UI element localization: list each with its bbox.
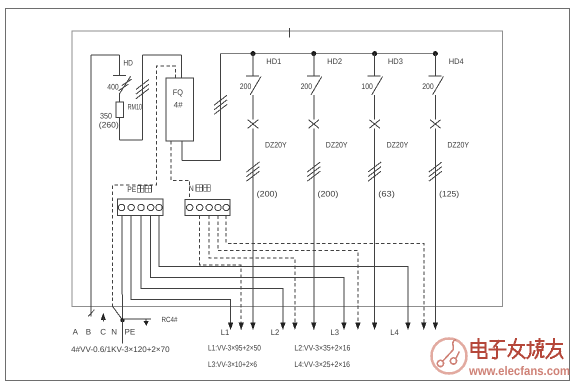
svg-text:DZ20Y: DZ20Y [387, 141, 409, 150]
svg-text:L2:VV-3×35+2×16: L2:VV-3×35+2×16 [294, 343, 350, 352]
svg-text:PE: PE [127, 185, 136, 194]
svg-text:HD3: HD3 [388, 57, 404, 66]
svg-text:200: 200 [422, 82, 434, 91]
svg-text:350: 350 [100, 112, 112, 121]
svg-text:A: A [73, 328, 79, 337]
svg-text:N: N [189, 184, 194, 193]
svg-text:L1: L1 [221, 328, 230, 337]
svg-text:HD: HD [123, 59, 133, 68]
svg-text:B: B [86, 328, 91, 337]
svg-text:L1:VV-3×95+2×50: L1:VV-3×95+2×50 [208, 343, 261, 352]
svg-text:(260): (260) [99, 121, 119, 130]
svg-text:RC4#: RC4# [162, 315, 179, 324]
svg-text:(125): (125) [439, 189, 459, 198]
svg-text:C: C [100, 328, 106, 337]
svg-text:100: 100 [361, 82, 373, 91]
svg-text:DZ20Y: DZ20Y [265, 141, 287, 150]
svg-text:L2: L2 [271, 328, 280, 337]
svg-text:L4: L4 [390, 328, 399, 337]
svg-text:400: 400 [107, 83, 119, 92]
svg-text:www.elecfans.com: www.elecfans.com [468, 364, 570, 378]
svg-text:200: 200 [240, 82, 252, 91]
svg-text:(63): (63) [378, 189, 395, 198]
svg-text:PE: PE [125, 328, 136, 337]
svg-text:4#: 4# [174, 100, 184, 109]
svg-text:RM10: RM10 [128, 103, 143, 112]
svg-text:(200): (200) [257, 189, 278, 198]
svg-text:200: 200 [301, 82, 313, 91]
svg-text:HD2: HD2 [327, 57, 343, 66]
svg-text:L4:VV-3×25+2×16: L4:VV-3×25+2×16 [294, 360, 350, 369]
svg-text:L3:VV-3×10+2×6: L3:VV-3×10+2×6 [208, 360, 257, 369]
svg-text:L3: L3 [331, 328, 340, 337]
svg-text:HD4: HD4 [449, 57, 465, 66]
svg-text:4#VV-0.6/1KV-3×120+2×70: 4#VV-0.6/1KV-3×120+2×70 [71, 345, 170, 354]
svg-text:DZ20Y: DZ20Y [447, 141, 469, 150]
svg-text:FQ: FQ [173, 88, 183, 97]
svg-text:N: N [111, 328, 117, 337]
svg-text:(200): (200) [318, 189, 339, 198]
svg-text:DZ20Y: DZ20Y [326, 141, 348, 150]
svg-text:HD1: HD1 [266, 57, 282, 66]
